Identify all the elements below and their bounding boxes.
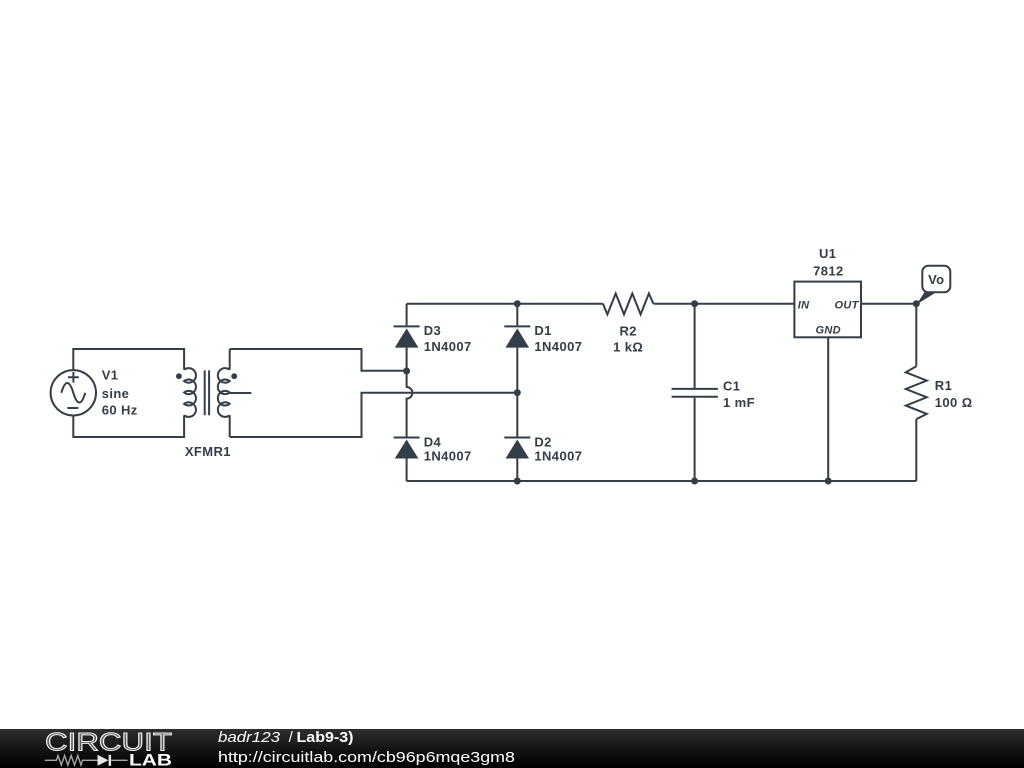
svg-text:D2: D2 — [534, 435, 551, 450]
svg-text:1N4007: 1N4007 — [534, 449, 582, 464]
node D1 top rail — [514, 300, 521, 307]
svg-text:V1: V1 — [102, 368, 119, 383]
node D2 bottom rail — [514, 478, 521, 485]
svg-text:1 mF: 1 mF — [723, 395, 755, 410]
svg-text:D3: D3 — [424, 323, 441, 338]
core — [205, 370, 209, 415]
wire right bridge branch — [516, 304, 518, 481]
wire secondary top to bridge — [230, 349, 407, 371]
node GND bottom rail — [825, 478, 832, 485]
node C1 top rail — [691, 300, 698, 307]
label R1 — [935, 378, 973, 410]
footer bar — [0, 729, 1024, 768]
wire V1 bottom loop — [73, 415, 184, 437]
svg-text:sine: sine — [102, 386, 130, 401]
label R2 — [613, 324, 643, 355]
svg-text:1N4007: 1N4007 — [534, 339, 582, 354]
svg-text:Vo: Vo — [928, 272, 944, 287]
phase dot primary — [176, 373, 182, 379]
svg-text:60 Hz: 60 Hz — [102, 403, 138, 418]
wire OUT pin — [861, 303, 916, 305]
svg-text:OUT: OUT — [834, 300, 859, 312]
svg-text:IN: IN — [798, 300, 810, 312]
resistor R1 — [906, 366, 927, 419]
diode D1 — [504, 326, 530, 347]
svg-text:LAB: LAB — [129, 751, 172, 768]
diode D3 — [394, 326, 420, 347]
diode D2 — [504, 438, 530, 459]
voltage source V1 — [51, 370, 96, 415]
transformer XFMR1 — [176, 349, 251, 437]
wire secondary bottom to bridge — [230, 393, 518, 437]
svg-text:badr123 / Lab9-3): badr123 / Lab9-3) — [218, 729, 354, 746]
primary coil — [184, 368, 196, 417]
svg-text:C1: C1 — [723, 379, 740, 394]
secondary coil — [218, 368, 230, 417]
label D4 — [424, 435, 472, 464]
svg-text:1N4007: 1N4007 — [424, 339, 472, 354]
svg-text:1 kΩ: 1 kΩ — [613, 340, 643, 355]
node C1 bottom rail — [691, 478, 698, 485]
diode D4 — [394, 438, 420, 459]
label D2 — [534, 435, 582, 464]
wire top rail — [407, 303, 795, 305]
CircuitLab logo squiggle resistor-diode — [45, 756, 128, 766]
capacitor C1 — [672, 389, 718, 397]
svg-text:http://circuitlab.com/cb96p6mq: http://circuitlab.com/cb96p6mqe3gm8 — [218, 749, 515, 766]
svg-text:1N4007: 1N4007 — [424, 449, 472, 464]
svg-text:R1: R1 — [935, 378, 952, 393]
svg-text:D1: D1 — [534, 323, 551, 338]
node Vo output — [913, 300, 920, 307]
CircuitLab logo diode — [98, 755, 109, 766]
wire R1 branch — [915, 304, 917, 481]
phase dot secondary — [231, 373, 237, 379]
label C1 — [723, 379, 755, 411]
wire C1 branch — [694, 304, 696, 481]
svg-text:R2: R2 — [619, 324, 636, 339]
IC U1 7812 regulator box — [794, 282, 861, 338]
wire bottom rail — [407, 480, 917, 482]
wire GND pin — [827, 337, 829, 481]
node secondary-bottom to D1/D2 — [514, 389, 521, 396]
label U1 — [813, 246, 844, 279]
svg-text:XFMR1: XFMR1 — [185, 444, 231, 459]
center tap stub — [230, 392, 252, 394]
svg-text:D4: D4 — [424, 435, 442, 450]
svg-text:GND: GND — [816, 325, 841, 337]
wire V1 top loop — [73, 349, 184, 370]
label V1 value — [102, 368, 138, 418]
svg-text:100 Ω: 100 Ω — [935, 395, 973, 410]
node secondary-top to D3/D4 — [403, 368, 410, 375]
label D3 — [424, 323, 472, 354]
label D1 — [534, 323, 582, 354]
secondary leads — [229, 349, 231, 437]
net flag Vo — [917, 266, 951, 305]
svg-text:7812: 7812 — [813, 264, 844, 279]
resistor R2 — [603, 294, 654, 315]
wire left bridge branch — [407, 304, 413, 481]
svg-text:U1: U1 — [819, 246, 836, 261]
